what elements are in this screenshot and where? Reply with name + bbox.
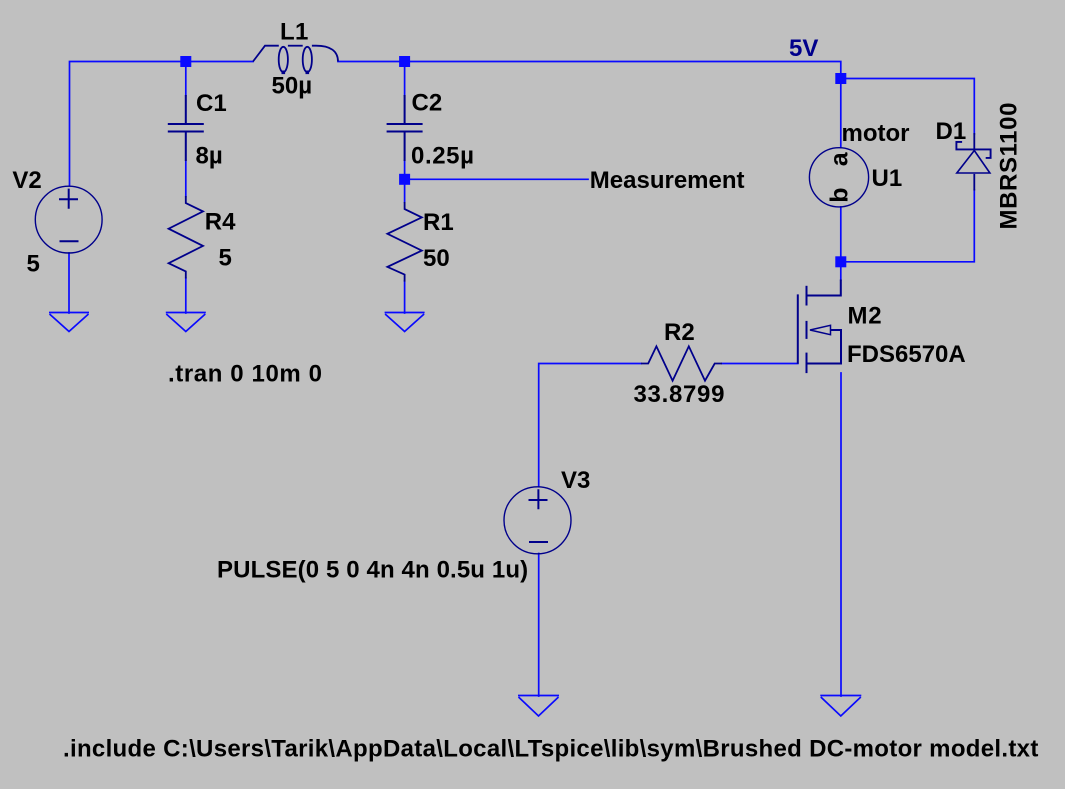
wire V2 bottom to ground bbox=[68, 253, 70, 313]
voltage source V2 bbox=[35, 186, 102, 253]
svg-text:MBRS1100: MBRS1100 bbox=[996, 102, 1023, 230]
svg-text:R2: R2 bbox=[664, 319, 695, 346]
svg-text:motor: motor bbox=[842, 120, 910, 147]
svg-text:R1: R1 bbox=[423, 209, 454, 236]
wire motor bottom to mosfet drain bbox=[840, 207, 842, 280]
wire diode anode to bottom rail bbox=[841, 190, 975, 262]
junction node Measurement bbox=[399, 174, 410, 185]
svg-text:C1: C1 bbox=[196, 90, 227, 117]
capacitor C1 bbox=[168, 95, 204, 161]
svg-text:L1: L1 bbox=[280, 18, 309, 45]
svg-text:U1: U1 bbox=[872, 165, 903, 192]
ground R1 bbox=[385, 313, 425, 332]
wire V3 bottom to ground bbox=[538, 554, 540, 697]
svg-text:50: 50 bbox=[423, 245, 450, 272]
junction node motor bottom bbox=[835, 256, 846, 267]
wire mosfet source to ground bbox=[840, 373, 842, 696]
svg-text:50µ: 50µ bbox=[272, 73, 313, 100]
wire Measurement stub bbox=[405, 178, 588, 180]
wire gate left segment (V3 corner to R2) bbox=[539, 364, 641, 487]
transistor M2 (NMOS) bbox=[798, 280, 841, 374]
svg-text:D1: D1 bbox=[936, 118, 967, 145]
svg-text:FDS6570A: FDS6570A bbox=[847, 341, 966, 368]
svg-text:R4: R4 bbox=[205, 209, 236, 236]
inductor L1 bbox=[253, 46, 338, 74]
ground M2 source bbox=[820, 696, 861, 717]
ground V3 bbox=[518, 696, 559, 717]
svg-text:5: 5 bbox=[27, 251, 40, 278]
wire R4 to ground bbox=[185, 278, 187, 313]
svg-text:b: b bbox=[826, 188, 854, 203]
svg-text:M2: M2 bbox=[848, 303, 883, 330]
junction node C1 top bbox=[180, 56, 191, 67]
wire R2 to gate bbox=[722, 363, 798, 365]
svg-text:V3: V3 bbox=[561, 467, 590, 494]
junction node motor top / 5V bbox=[835, 73, 846, 84]
wire top rail right (L1 to 5V corner, down to motor) bbox=[338, 62, 841, 148]
svg-text:.include C:\Users\Tarik\AppDat: .include C:\Users\Tarik\AppData\Local\LT… bbox=[63, 736, 1039, 763]
svg-text:.tran 0 10m 0: .tran 0 10m 0 bbox=[168, 361, 323, 388]
svg-text:Measurement: Measurement bbox=[590, 167, 745, 194]
wire diode branch top bbox=[841, 79, 975, 135]
svg-text:5: 5 bbox=[219, 245, 232, 272]
resistor R2 bbox=[641, 346, 722, 380]
diode D1 (schottky) bbox=[956, 133, 990, 191]
svg-text:V2: V2 bbox=[12, 167, 41, 194]
voltage source V3 bbox=[504, 487, 571, 554]
resistor R1 bbox=[387, 202, 421, 282]
svg-text:5V: 5V bbox=[789, 35, 818, 62]
wire R1 to ground bbox=[404, 281, 406, 313]
ground V2 bbox=[49, 313, 89, 332]
capacitor C2 bbox=[387, 95, 423, 161]
motor U1 bbox=[809, 148, 868, 207]
wire C2 to measurement node bbox=[404, 161, 406, 203]
svg-text:a: a bbox=[826, 151, 854, 166]
resistor R4 bbox=[169, 196, 203, 279]
svg-text:33.8799: 33.8799 bbox=[634, 381, 726, 408]
wire C1 to R4 bbox=[185, 161, 187, 197]
svg-text:PULSE(0 5 0 4n 4n 0.5u 1u): PULSE(0 5 0 4n 4n 0.5u 1u) bbox=[217, 557, 528, 584]
wire C2 branch upper bbox=[404, 62, 406, 96]
ground R4 bbox=[166, 313, 206, 332]
svg-text:8µ: 8µ bbox=[196, 143, 223, 170]
junction node C2 top bbox=[399, 56, 410, 67]
wire C1 branch upper bbox=[185, 62, 187, 96]
wire top rail left (V2 corner to L1) bbox=[70, 62, 254, 186]
svg-text:0.25µ: 0.25µ bbox=[411, 143, 475, 170]
svg-text:C2: C2 bbox=[412, 90, 443, 117]
